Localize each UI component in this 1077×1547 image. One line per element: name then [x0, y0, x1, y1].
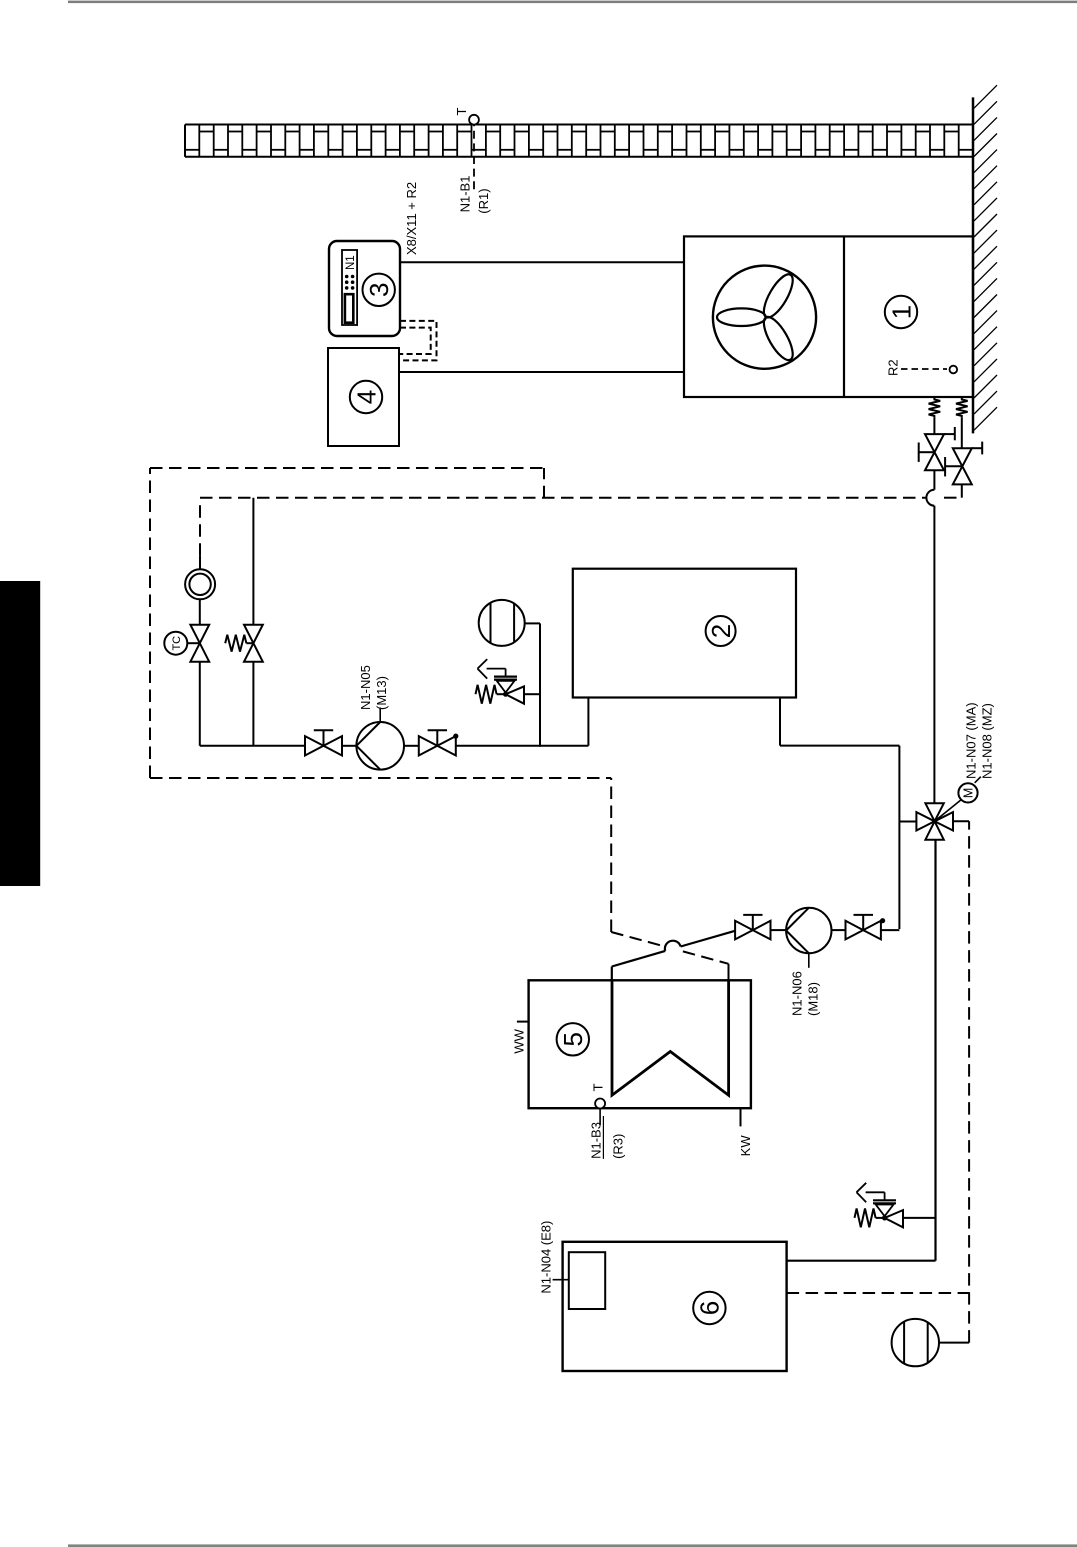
wall / floor line with hatching — [973, 85, 997, 433]
label N1-N04 (E8) with leader — [539, 1221, 569, 1294]
heating circuit pipe (manifold) — [200, 745, 305, 747]
controller unit 3 (rounded box) — [329, 241, 400, 336]
svg-text:WW: WW — [512, 1028, 527, 1053]
shutoff valve DHW (lower) — [846, 915, 886, 940]
valve actuator M — [935, 777, 981, 822]
wire unit3 to heat pump — [400, 261, 684, 263]
tank sensor T (N1-B3) — [590, 1083, 605, 1125]
page header rule — [68, 1, 1077, 4]
unit 4 (box) — [328, 348, 399, 446]
safety valve (heating) — [476, 659, 525, 704]
svg-text:2: 2 — [706, 624, 736, 638]
shutoff valve after pump N1-N05 — [419, 730, 459, 755]
pipe into DHW coil (right connection) — [728, 964, 730, 981]
main pipe to heater unit 6 — [787, 840, 936, 1261]
svg-text:(M18): (M18) — [806, 982, 821, 1016]
svg-text:T: T — [454, 108, 469, 116]
pump N1-N05 (M13) — [356, 665, 404, 769]
safety valve connection to pipe — [903, 1217, 936, 1219]
heat pump outdoor unit 1 — [684, 236, 973, 397]
svg-text:(R1): (R1) — [476, 188, 491, 213]
shutoff valve before pump N1-N05 — [305, 730, 342, 755]
svg-text:N1-N05: N1-N05 — [358, 665, 373, 710]
branch pipe overflow valve — [252, 498, 254, 746]
expansion vessel (bottom) — [892, 1319, 970, 1366]
mixing valve N1-N07/N1-N08 (4-way) — [916, 803, 953, 839]
dashed boundary of indoor unit scope — [150, 468, 611, 932]
svg-text:N1-B1: N1-B1 — [457, 176, 472, 213]
shutoff valve DHW (upper) — [735, 915, 770, 940]
wire unit4 to heat pump — [399, 371, 684, 373]
WW connection stub — [517, 1021, 529, 1023]
svg-text:TC: TC — [171, 636, 183, 651]
flexible connector (supply) — [929, 398, 941, 417]
dashed bus cable between unit 3 and unit 4 — [399, 321, 437, 361]
svg-text:5: 5 — [558, 1032, 588, 1046]
svg-text:(R3): (R3) — [610, 1134, 625, 1159]
thermostatic valve TC — [164, 625, 209, 662]
svg-text:X8/X11 + R2: X8/X11 + R2 — [404, 182, 419, 255]
shutoff valve with drain (return, near heat pump) — [945, 442, 982, 485]
svg-text:4: 4 — [351, 390, 381, 404]
unit2 connection to mixing valve — [780, 698, 899, 930]
mixing valve bottom port to dashed return — [953, 820, 969, 822]
svg-text:N1-N07 (MA): N1-N07 (MA) — [964, 702, 979, 779]
overflow valve with spring — [225, 625, 263, 662]
pipe vessel/safety to manifold — [539, 623, 541, 746]
safety valve connection — [524, 693, 540, 695]
pipe — [404, 745, 419, 747]
DHW tank heating coil — [612, 980, 729, 1095]
svg-text:N1-N06: N1-N06 — [790, 971, 805, 1016]
svg-text:M: M — [962, 788, 976, 798]
svg-text:KW: KW — [738, 1135, 753, 1157]
svg-text:3: 3 — [364, 283, 394, 297]
svg-text:1: 1 — [886, 305, 916, 319]
mixing valve top port stub — [899, 821, 916, 823]
dashed return line B (to heating manifold) — [200, 497, 962, 499]
unit2 connection to manifold — [587, 698, 589, 746]
pipe heat pump return — [961, 417, 963, 497]
dashed leader for sensor N1-B1 — [473, 125, 475, 190]
svg-text:N1: N1 — [345, 255, 357, 270]
DHW tank unit 5 — [529, 980, 751, 1108]
dashed return line (MZ) to expansion vessel — [968, 821, 970, 1342]
chapter tab (black) — [0, 581, 40, 886]
electric heater unit 6 — [563, 1242, 787, 1371]
page footer rule — [68, 1544, 1077, 1547]
svg-text:(M13): (M13) — [374, 676, 389, 710]
DHW circuit pipe — [771, 929, 899, 931]
dashed line to pressure gauge — [199, 501, 201, 556]
ceiling/masonry band (brick hatch) — [185, 125, 973, 157]
labels N1-N07 (MA) / N1-N08 (MZ) — [964, 702, 995, 779]
label N1-B3 (R3) — [588, 1116, 625, 1159]
dashed alternative pipe to DHW coil — [611, 932, 728, 964]
svg-text:N1-N04 (E8): N1-N04 (E8) — [539, 1221, 554, 1294]
svg-text:T: T — [590, 1083, 605, 1091]
safety valve (DHW/heater) — [855, 1183, 904, 1228]
sensor R2 with dashed leader — [885, 359, 957, 376]
pipe TC valve to manifold — [199, 662, 201, 746]
pipe heat pump supply — [926, 417, 934, 803]
label N1-B1 (R1) — [457, 176, 491, 214]
KW connection stub — [740, 1108, 742, 1126]
pump N1-N06 (M18) — [786, 908, 831, 1016]
pressure gauge — [185, 556, 215, 600]
pipe to DHW coil (diagonal with crossing hump) — [612, 931, 735, 981]
sensor T on ceiling (outdoor air temp) — [454, 108, 479, 125]
svg-text:6: 6 — [695, 1301, 725, 1315]
pipe gauge to TC valve — [199, 599, 201, 624]
dashed return into unit 6 — [787, 1292, 970, 1294]
shutoff valve with drain (supply, near heat pump) — [919, 427, 955, 470]
pipe — [456, 745, 589, 747]
svg-text:N1-B3: N1-B3 — [588, 1122, 603, 1159]
svg-text:R2: R2 — [885, 359, 900, 376]
svg-text:N1-N08 (MZ): N1-N08 (MZ) — [980, 703, 995, 779]
expansion vessel (heating) — [479, 600, 540, 646]
flexible connector (return) — [956, 398, 968, 417]
indoor unit 2 (box) — [573, 569, 796, 698]
pipe — [342, 745, 356, 747]
